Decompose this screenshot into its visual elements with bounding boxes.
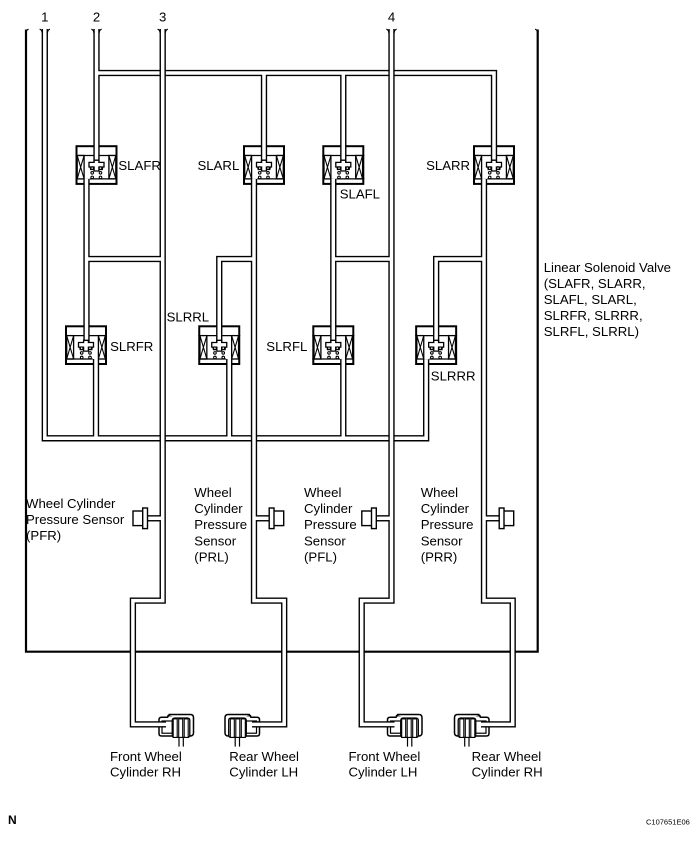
wire supply line 2 into SLAFR (93, 29, 99, 162)
pressure sensor PFR symbol (133, 511, 143, 526)
wire SLAFR outlet down to SLRFR inlet (83, 179, 89, 342)
svg-text:SLARR: SLARR (426, 158, 470, 173)
solenoid valve SLRFL poppet (326, 340, 341, 351)
svg-text:SLAFL: SLAFL (340, 187, 380, 202)
solenoid valve SLRRR poppet (429, 340, 444, 351)
svg-text:(PRL): (PRL) (194, 549, 228, 564)
svg-text:Linear Solenoid Valve: Linear Solenoid Valve (544, 260, 671, 275)
pressure sensor PRL symbol (274, 511, 284, 526)
wire FR tee to line 3 (87, 256, 163, 262)
pressure sensor PFL symbol (362, 511, 372, 526)
front wheel cylinder RH body (159, 715, 194, 737)
svg-text:4: 4 (388, 10, 395, 25)
svg-text:Cylinder LH: Cylinder LH (349, 765, 418, 780)
svg-text:SLRRR: SLRRR (431, 369, 476, 384)
svg-text:Pressure: Pressure (304, 517, 357, 532)
solenoid valve SLARR poppet (487, 160, 502, 171)
svg-text:(SLAFR, SLARR,: (SLAFR, SLARR, (544, 276, 646, 291)
svg-text:Front Wheel: Front Wheel (349, 749, 421, 764)
solenoid valve SLARR body (474, 146, 514, 184)
wire SLARR outlet / rear-right wheel line (481, 179, 513, 725)
wire pressure sensor PFL stub (376, 515, 391, 521)
svg-text:Front Wheel: Front Wheel (110, 749, 182, 764)
wire pressure sensor PFR stub (148, 515, 163, 521)
actuator housing border (26, 30, 538, 652)
wire RL tee and SLRRL inlet drop (219, 259, 254, 342)
svg-text:SLRFL: SLRFL (266, 339, 307, 354)
svg-text:Cylinder: Cylinder (194, 501, 243, 516)
wire SLRFR outlet to return bus (93, 359, 99, 438)
wire line 4 to front-left wheel cylinder (362, 29, 395, 724)
svg-text:SLRFR, SLRRR,: SLRFR, SLRRR, (544, 308, 643, 323)
solenoid valve SLRRL poppet (212, 340, 227, 351)
wire SLRFL outlet to return bus (340, 359, 346, 438)
svg-text:Rear Wheel: Rear Wheel (472, 749, 542, 764)
svg-text:SLAFL, SLARL,: SLAFL, SLARL, (544, 292, 637, 307)
wire pressure sensor PRR stub (484, 515, 499, 521)
svg-text:3: 3 (159, 10, 166, 25)
svg-text:Cylinder LH: Cylinder LH (229, 765, 298, 780)
svg-text:SLRFL, SLRRL): SLRFL, SLRRL) (544, 324, 639, 339)
solenoid valve SLRFL body (313, 326, 353, 364)
solenoid valve SLAFR poppet (89, 160, 104, 171)
svg-text:Sensor: Sensor (421, 533, 463, 548)
svg-text:(PFL): (PFL) (304, 549, 337, 564)
wire drop to SLAFL stem (340, 73, 346, 162)
rear wheel cylinder LH ribs (229, 715, 252, 747)
svg-text:C107651E06: C107651E06 (646, 818, 690, 827)
pipe end curls (40, 29, 397, 33)
svg-text:SLAFR: SLAFR (118, 158, 161, 173)
svg-text:Cylinder: Cylinder (304, 501, 353, 516)
svg-text:Pressure: Pressure (421, 517, 474, 532)
wire top supply bus (97, 73, 495, 162)
svg-text:Cylinder RH: Cylinder RH (472, 765, 543, 780)
wire RR tee and SLRRR inlet drop (436, 259, 484, 342)
solenoid valve SLARL body (244, 146, 284, 184)
svg-text:(PRR): (PRR) (421, 549, 458, 564)
svg-text:Rear Wheel: Rear Wheel (229, 749, 299, 764)
pressure sensor PRR symbol (504, 511, 514, 526)
svg-text:SLRRL: SLRRL (167, 310, 210, 325)
svg-text:2: 2 (93, 10, 100, 25)
wire return line 1 and return bus (45, 29, 426, 438)
rear wheel cylinder LH body (225, 715, 260, 737)
wire drop to SLARL stem (261, 73, 267, 162)
svg-text:1: 1 (41, 10, 48, 25)
front wheel cylinder LH body (388, 715, 423, 737)
rear wheel cylinder RH ribs (458, 715, 481, 747)
front wheel cylinder RH ribs (167, 715, 173, 717)
svg-text:Pressure: Pressure (194, 517, 247, 532)
rear wheel cylinder RH body (455, 715, 490, 737)
svg-text:N: N (8, 813, 17, 827)
svg-text:Sensor: Sensor (194, 533, 236, 548)
svg-text:Cylinder: Cylinder (421, 501, 470, 516)
wire SLAFL outlet down to SLRFL inlet (330, 179, 336, 342)
wire SLARL outlet / rear-left wheel line (252, 179, 284, 725)
svg-text:Sensor: Sensor (304, 533, 346, 548)
svg-text:SLRFR: SLRFR (110, 339, 153, 354)
svg-text:Pressure Sensor: Pressure Sensor (26, 512, 125, 527)
svg-text:Cylinder RH: Cylinder RH (110, 765, 181, 780)
svg-text:Wheel: Wheel (304, 485, 341, 500)
solenoid valve SLRRR body (416, 326, 456, 364)
svg-text:Wheel: Wheel (194, 485, 231, 500)
wire line 3 to front-right wheel cylinder (133, 29, 166, 724)
solenoid valve SLARL poppet (257, 160, 272, 171)
wire pressure sensor PRL stub (254, 515, 269, 521)
solenoid valve SLAFL poppet (336, 160, 351, 171)
wire FL tee to line 4 (333, 256, 391, 262)
front wheel cylinder LH ribs (396, 715, 402, 717)
solenoid valve SLAFR body (77, 146, 117, 184)
solenoid valve SLRFR poppet (79, 340, 94, 351)
wire SLRRL outlet to return bus (226, 359, 232, 438)
svg-text:SLARL: SLARL (198, 158, 240, 173)
solenoid valve SLRFR body (66, 326, 106, 364)
solenoid valve SLAFL body (323, 146, 363, 184)
svg-text:Wheel Cylinder: Wheel Cylinder (26, 496, 116, 511)
solenoid valve SLRRL body (199, 326, 239, 364)
svg-text:(PFR): (PFR) (26, 528, 61, 543)
svg-text:Wheel: Wheel (421, 485, 458, 500)
